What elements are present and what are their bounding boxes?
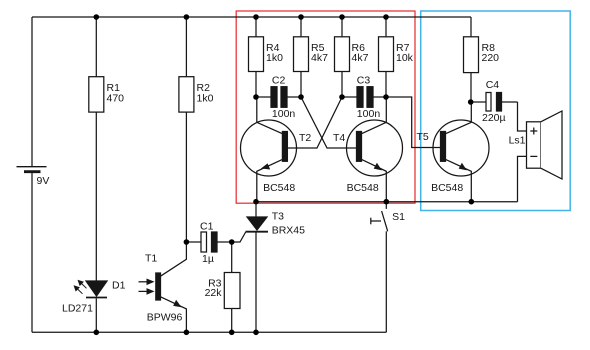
svg-text:T2: T2 [299,132,311,144]
svg-text:220: 220 [482,52,500,64]
svg-text:LD271: LD271 [62,302,93,314]
svg-text:1µ: 1µ [202,253,214,265]
transistor Q T4 BC548 [347,97,403,202]
transistor Q T2 BC548 [241,97,297,202]
wire cross coupling R6 node to T2 base [287,97,342,148]
svg-text:220µ: 220µ [482,112,506,124]
wire T1 emitter with arrow [161,297,187,333]
wire emitter rail [256,201,518,203]
svg-text:T3: T3 [272,210,284,222]
capacitor C3 100n [342,87,386,108]
wire R7 top [385,17,387,37]
battery BT1 9V [17,167,47,172]
svg-text:BPW96: BPW96 [147,312,183,324]
wire R4 to C2 node [255,72,257,98]
wire C1 node to R3 [231,242,233,273]
wire T4 collector node to T5 base [386,97,440,148]
svg-text:470: 470 [107,92,125,104]
wire R1 top [95,17,97,77]
resistor R2 [179,77,194,112]
resistor R8 [464,37,479,73]
thyristor T3 BRX45 [246,202,269,333]
wire speaker minus return [518,156,527,201]
svg-text:C2: C2 [272,75,286,87]
wire T1 collector [161,242,187,276]
svg-text:D1: D1 [112,279,126,291]
svg-text:10k: 10k [396,52,414,64]
frame red box (astable multivibrator block) [236,11,415,203]
wire R7 to node [385,72,387,98]
svg-text:Ls1: Ls1 [509,134,526,146]
resistor R7 [379,37,394,72]
wire R6 to node [341,72,343,98]
wire R5 to node [300,72,302,98]
svg-text:T4: T4 [333,132,345,144]
transistor Q T5 BC548 [433,102,489,202]
phototransistor T1 BPW96 [139,273,161,300]
node dots ground rail [94,330,259,336]
node dots top rail [94,14,389,20]
wire R8 to C4 node [470,73,472,102]
svg-text:BC548: BC548 [263,182,295,194]
wire R2 top [185,17,187,77]
svg-text:4k7: 4k7 [311,52,328,64]
svg-text:C4: C4 [486,79,500,91]
resistor R5 [294,37,309,72]
svg-text:C3: C3 [357,75,371,87]
svg-text:BC548: BC548 [347,182,379,194]
svg-text:4k7: 4k7 [352,52,369,64]
capacitor C2 100n [256,87,301,108]
wire D1 to ground rail [95,298,97,332]
frame blue box (output amplifier block) [421,11,571,211]
capacitor C4 220u [471,93,518,112]
svg-text:C1: C1 [200,220,214,232]
resistor R6 [335,37,350,72]
wire C4 to speaker plus [518,102,527,131]
wire left battery column bottom [31,173,33,333]
wire R4 top [255,17,257,37]
node dots coupling row [253,94,473,105]
wire bottom ground rail [32,331,386,333]
node dots emitter rail [253,199,474,205]
svg-text:9V: 9V [37,175,50,187]
wire R8 top from rail corner [470,17,472,37]
resistor R4 [249,37,264,72]
LED D1 [74,280,108,298]
wire R2 to C1 node [185,112,187,242]
svg-text:T1: T1 [145,252,157,264]
resistor R3 [224,273,240,309]
resistor R1 [89,77,104,112]
svg-text:T5: T5 [417,131,429,143]
wire left battery column top [31,17,33,166]
wire R5 top [300,17,302,37]
svg-text:100n: 100n [357,108,381,120]
wire thyristor gate [232,232,246,242]
wire top supply rail [32,16,471,18]
svg-text:100n: 100n [272,108,296,120]
svg-text:1k0: 1k0 [197,92,214,104]
capacitor C1 1u [186,232,231,252]
wire R6 top [341,17,343,37]
node dots C1 [184,239,235,245]
wire R3 to ground rail [231,309,233,333]
svg-text:BRX45: BRX45 [272,225,305,237]
svg-text:22k: 22k [205,287,223,299]
wire R1 to D1 [95,112,97,281]
svg-text:1k0: 1k0 [266,52,283,64]
switch S1 [371,202,388,333]
wire cross coupling R5 node to T4 base [301,97,357,148]
svg-text:S1: S1 [392,211,405,223]
loudspeaker Ls1 [527,111,563,179]
svg-text:BC548: BC548 [431,182,463,194]
